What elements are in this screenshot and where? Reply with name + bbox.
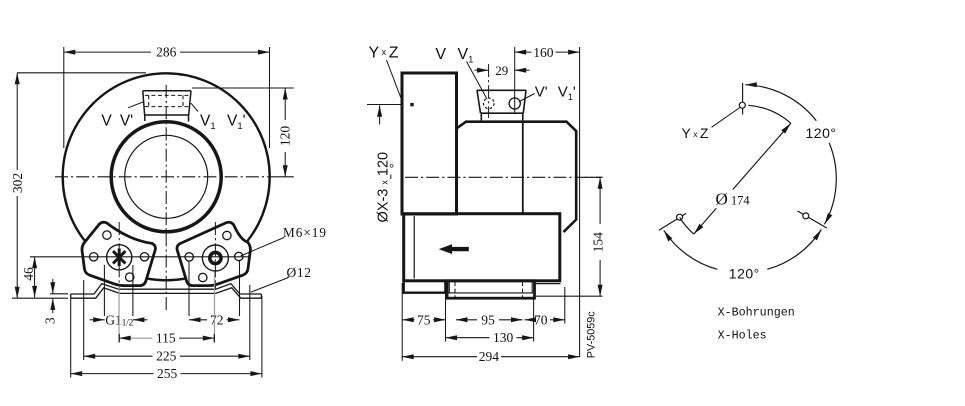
svg-text:294: 294 <box>479 349 500 364</box>
svg-text:V: V <box>101 113 112 130</box>
svg-text:72: 72 <box>210 312 224 327</box>
svg-text:3: 3 <box>42 317 57 324</box>
svg-text:°: ° <box>389 161 394 176</box>
svg-text:X-Holes: X-Holes <box>718 329 767 343</box>
svg-text:225: 225 <box>156 349 177 364</box>
svg-text:M6×19: M6×19 <box>283 225 327 240</box>
svg-text:29: 29 <box>495 63 508 78</box>
svg-text:Ø12: Ø12 <box>287 265 312 280</box>
svg-text:75: 75 <box>417 312 431 327</box>
svg-text:70: 70 <box>534 312 548 327</box>
svg-text:V1': V1' <box>227 113 246 133</box>
svg-text:154: 154 <box>590 232 605 253</box>
svg-text:120: 120 <box>277 126 292 147</box>
svg-text:160: 160 <box>533 45 554 60</box>
svg-text:120°: 120° <box>806 125 837 141</box>
svg-text:V': V' <box>120 113 133 130</box>
svg-text:115: 115 <box>156 331 176 346</box>
svg-text:PV-5059c: PV-5059c <box>586 311 598 358</box>
svg-text:130: 130 <box>493 330 514 345</box>
svg-text:255: 255 <box>157 366 178 381</box>
svg-text:302: 302 <box>10 173 25 193</box>
svg-text:V1': V1' <box>558 83 576 102</box>
svg-text:95: 95 <box>481 312 495 327</box>
svg-text:46: 46 <box>21 267 36 281</box>
svg-text:V: V <box>435 46 446 63</box>
svg-text:286: 286 <box>156 44 177 59</box>
svg-text:X-Bohrungen: X-Bohrungen <box>718 305 795 319</box>
svg-text:V': V' <box>535 83 548 100</box>
svg-text:120°: 120° <box>729 265 760 281</box>
